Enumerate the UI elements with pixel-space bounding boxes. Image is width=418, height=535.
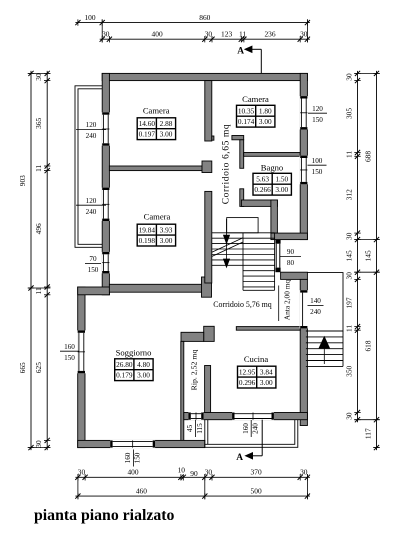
svg-text:500: 500 [251, 487, 262, 496]
top dimension row 1 (100 / 860) [75, 13, 310, 26]
corridor west wall (upper segment) [205, 81, 212, 141]
block at closet north-east corner [204, 326, 215, 341]
svg-text:460: 460 [136, 487, 147, 496]
svg-text:236: 236 [264, 30, 275, 39]
svg-text:240: 240 [86, 132, 97, 140]
window 100/150 of Bagno [300, 156, 308, 185]
room Soggiorno [115, 347, 153, 380]
jamb block at end of bedroom partition [202, 161, 212, 173]
svg-text:30: 30 [344, 412, 353, 420]
svg-text:350: 350 [344, 365, 353, 376]
svg-text:19.84: 19.84 [139, 226, 156, 235]
stairwell upper landing outline [227, 218, 258, 233]
svg-text:0.174: 0.174 [238, 117, 255, 126]
stair landing thin wall with window 90/80 [275, 240, 280, 273]
closet north wall [181, 332, 204, 341]
window 120/150 of Camera top-right [300, 96, 308, 129]
window 70/150 of Camera mid-left [102, 252, 110, 274]
svg-text:5.63: 5.63 [256, 175, 269, 184]
svg-text:240: 240 [310, 308, 321, 316]
svg-text:120: 120 [86, 197, 97, 205]
svg-text:120: 120 [312, 105, 323, 113]
soggiorno south wall [78, 440, 205, 447]
window 120/240 of Camera top-left [102, 112, 110, 145]
bottom dimension row 2 (460 / 500) [75, 487, 310, 500]
svg-text:197: 197 [344, 297, 353, 308]
svg-text:3.00: 3.00 [137, 371, 150, 380]
upper-left exterior wall [102, 73, 109, 294]
top exterior wall [102, 73, 307, 80]
svg-text:0.198: 0.198 [139, 236, 156, 245]
dimension chain connector extension lines [28, 19, 380, 499]
terrace at bottom-right (double outline) [205, 420, 298, 448]
bottom dimension row 1 (30/400/10/90/30/370/30) [75, 466, 310, 481]
bagno south wall west part [241, 200, 277, 206]
right exterior wall (upper) [300, 73, 307, 239]
window 160/240 of Cucina (bottom wall) [232, 412, 274, 420]
anta room thin outline [306, 273, 343, 331]
svg-text:A: A [237, 47, 244, 57]
cucina north thin wall [236, 327, 300, 331]
svg-text:3.00: 3.00 [160, 130, 173, 139]
svg-text:3.84: 3.84 [260, 368, 273, 377]
svg-text:30: 30 [344, 73, 353, 81]
room Cucina [238, 354, 276, 388]
right outer dimension chain (688/145/618/117) [363, 71, 379, 450]
jamb block at corridor wall bottom [202, 277, 212, 297]
section marker A (top) [237, 46, 261, 74]
left step wall between upper and lower block [78, 287, 110, 295]
svg-text:11: 11 [239, 30, 246, 39]
svg-text:305: 305 [344, 108, 353, 119]
svg-text:123: 123 [221, 30, 232, 39]
svg-text:Camera: Camera [144, 212, 171, 222]
room Bagno [253, 163, 291, 196]
svg-text:150: 150 [312, 168, 323, 176]
svg-text:100: 100 [312, 157, 323, 165]
anta north wall [281, 272, 308, 279]
top dimension row 2 (30/400/30/123/11/236/30) [100, 30, 310, 43]
cucina / closet south wall [184, 413, 308, 420]
svg-text:150: 150 [134, 452, 142, 463]
section marker A (bottom) [236, 420, 262, 464]
bagno south wall east part [271, 233, 308, 240]
svg-text:2.88: 2.88 [160, 119, 173, 128]
svg-text:Corridoio 6,65 mq: Corridoio 6,65 mq [221, 124, 232, 205]
balcony at upper-left (double outline) [75, 86, 102, 248]
closet east wall [205, 366, 211, 413]
svg-text:0.197: 0.197 [139, 130, 156, 139]
svg-text:312: 312 [344, 189, 353, 200]
corridor west wall (lower segment) [205, 191, 212, 283]
svg-text:117: 117 [363, 428, 372, 439]
room Camera mid-left [137, 212, 175, 247]
svg-text:0.266: 0.266 [254, 185, 271, 194]
svg-text:10: 10 [178, 466, 186, 475]
svg-text:30: 30 [34, 73, 43, 81]
svg-text:400: 400 [127, 468, 138, 477]
svg-text:80: 80 [287, 259, 295, 267]
external stair up arrow [319, 336, 331, 364]
svg-text:240: 240 [86, 208, 97, 216]
svg-text:14.60: 14.60 [139, 119, 156, 128]
svg-text:665: 665 [18, 362, 27, 373]
svg-text:30: 30 [300, 468, 308, 477]
svg-text:3.00: 3.00 [160, 236, 173, 245]
svg-text:3.00: 3.00 [260, 378, 273, 387]
svg-text:Cucina: Cucina [244, 354, 269, 364]
svg-text:30: 30 [205, 468, 213, 477]
svg-text:496: 496 [34, 223, 43, 234]
stair flight side lines [243, 233, 275, 290]
svg-text:1.80: 1.80 [259, 107, 272, 116]
svg-text:3.93: 3.93 [160, 226, 173, 235]
svg-text:160: 160 [242, 423, 250, 434]
svg-text:11: 11 [344, 151, 353, 158]
window 160/150 of Soggiorno (bottom wall) [110, 440, 155, 448]
svg-text:3.00: 3.00 [275, 185, 288, 194]
svg-text:0.296: 0.296 [239, 378, 256, 387]
left inner dimension chain (30/365/11/496/11/625/30) [34, 71, 50, 450]
window 160/150 of Soggiorno (left wall) [77, 330, 86, 373]
closet west wall [181, 341, 184, 441]
partition between the two left bedrooms [109, 166, 202, 171]
svg-text:Soggiorno: Soggiorno [116, 347, 152, 357]
svg-text:Bagno: Bagno [261, 163, 283, 173]
room Camera top-left [137, 106, 175, 140]
svg-text:903: 903 [18, 175, 27, 186]
svg-text:365: 365 [34, 117, 43, 128]
svg-text:150: 150 [88, 266, 99, 274]
svg-text:618: 618 [363, 340, 372, 351]
external stair treads [306, 336, 343, 338]
stair break diagonals [212, 238, 243, 257]
svg-text:240: 240 [251, 423, 259, 434]
svg-text:4.80: 4.80 [137, 360, 150, 369]
svg-text:688: 688 [363, 151, 372, 162]
svg-text:Anta 2,00 mq: Anta 2,00 mq [283, 279, 292, 320]
bagno south step wall [271, 200, 278, 233]
room Camera top-right [237, 94, 275, 127]
svg-text:30: 30 [102, 30, 110, 39]
window 45/115 of closet (bottom wall) [188, 412, 203, 420]
svg-text:pianta piano rialzato: pianta piano rialzato [34, 507, 175, 524]
stair treads (right flight) [243, 270, 275, 272]
svg-text:Camera: Camera [143, 106, 170, 116]
svg-text:30: 30 [78, 468, 86, 477]
svg-text:Rip. 2,52 mq: Rip. 2,52 mq [189, 350, 198, 391]
window 120/240 of Camera mid-left [102, 188, 110, 221]
svg-text:12.95: 12.95 [239, 368, 256, 377]
svg-text:145: 145 [363, 250, 372, 261]
svg-text:140: 140 [310, 297, 321, 305]
svg-text:1.50: 1.50 [275, 175, 288, 184]
partition between Camera top-right and Bagno [244, 153, 301, 157]
svg-text:30: 30 [205, 30, 213, 39]
lower-left exterior wall [78, 287, 85, 448]
svg-text:90: 90 [190, 469, 198, 478]
svg-text:150: 150 [64, 354, 75, 362]
svg-text:30: 30 [300, 30, 308, 39]
svg-text:11: 11 [34, 164, 43, 171]
stair treads (full width) [212, 232, 275, 234]
svg-text:30: 30 [344, 272, 353, 280]
svg-text:30: 30 [34, 440, 43, 448]
svg-text:11: 11 [344, 325, 353, 332]
svg-text:3.00: 3.00 [259, 117, 272, 126]
svg-text:70: 70 [89, 255, 97, 263]
svg-text:370: 370 [251, 468, 262, 477]
svg-text:120: 120 [86, 121, 97, 129]
bagno west wall upper piece [240, 140, 244, 169]
svg-text:860: 860 [199, 13, 210, 22]
svg-text:45: 45 [186, 425, 194, 433]
svg-text:400: 400 [152, 30, 163, 39]
svg-text:10.35: 10.35 [238, 107, 255, 116]
svg-text:90: 90 [287, 248, 295, 256]
svg-text:160: 160 [124, 452, 132, 463]
entrance door 140/240 in right wall [300, 290, 308, 328]
thin wall south of Camera top-right (door jamb wall) [232, 136, 244, 140]
svg-text:115: 115 [196, 423, 204, 434]
svg-text:Camera: Camera [242, 94, 269, 104]
stair down-direction arrows [223, 219, 230, 268]
small nub at corridor wall end [212, 136, 214, 140]
svg-text:100: 100 [84, 13, 95, 22]
svg-text:0.179: 0.179 [116, 371, 133, 380]
svg-text:160: 160 [64, 343, 75, 351]
right inner dimension chain (30/305/11/312/30/145/30/197/11/350/30) [344, 71, 360, 423]
bagno west wall lower piece [240, 189, 244, 207]
svg-text:A: A [236, 453, 243, 463]
wall between Camera ML and Soggiorno [109, 284, 202, 292]
left outer dimension chain (903 / 665) [18, 71, 34, 450]
svg-text:26.80: 26.80 [116, 360, 133, 369]
svg-text:150: 150 [312, 116, 323, 124]
svg-text:625: 625 [34, 362, 43, 373]
svg-text:30: 30 [344, 232, 353, 240]
right exterior wall (lower) [300, 279, 307, 425]
atrio boundary thin line [278, 286, 280, 322]
svg-text:145: 145 [344, 250, 353, 261]
svg-text:Corridoio 5,76 mq: Corridoio 5,76 mq [213, 300, 272, 309]
